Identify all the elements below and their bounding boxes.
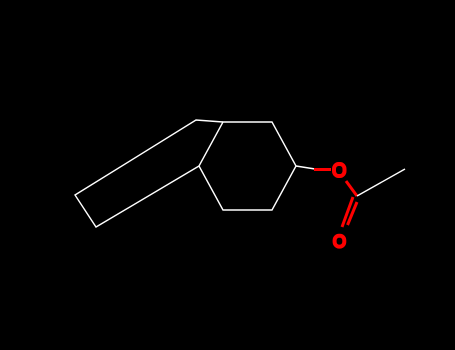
- atom O ester: [334, 164, 345, 176]
- bond O-C red: [346, 181, 357, 196]
- atom O carbonyl: [335, 236, 345, 247]
- carbonyl double bond C=O: [342, 197, 353, 227]
- cyclohexane ring C1: [199, 122, 296, 210]
- fused left ring: [75, 120, 223, 227]
- bond C-O red part: [314, 168, 331, 171]
- bond C-O white part: [296, 166, 315, 169]
- tail bond: [357, 169, 405, 196]
